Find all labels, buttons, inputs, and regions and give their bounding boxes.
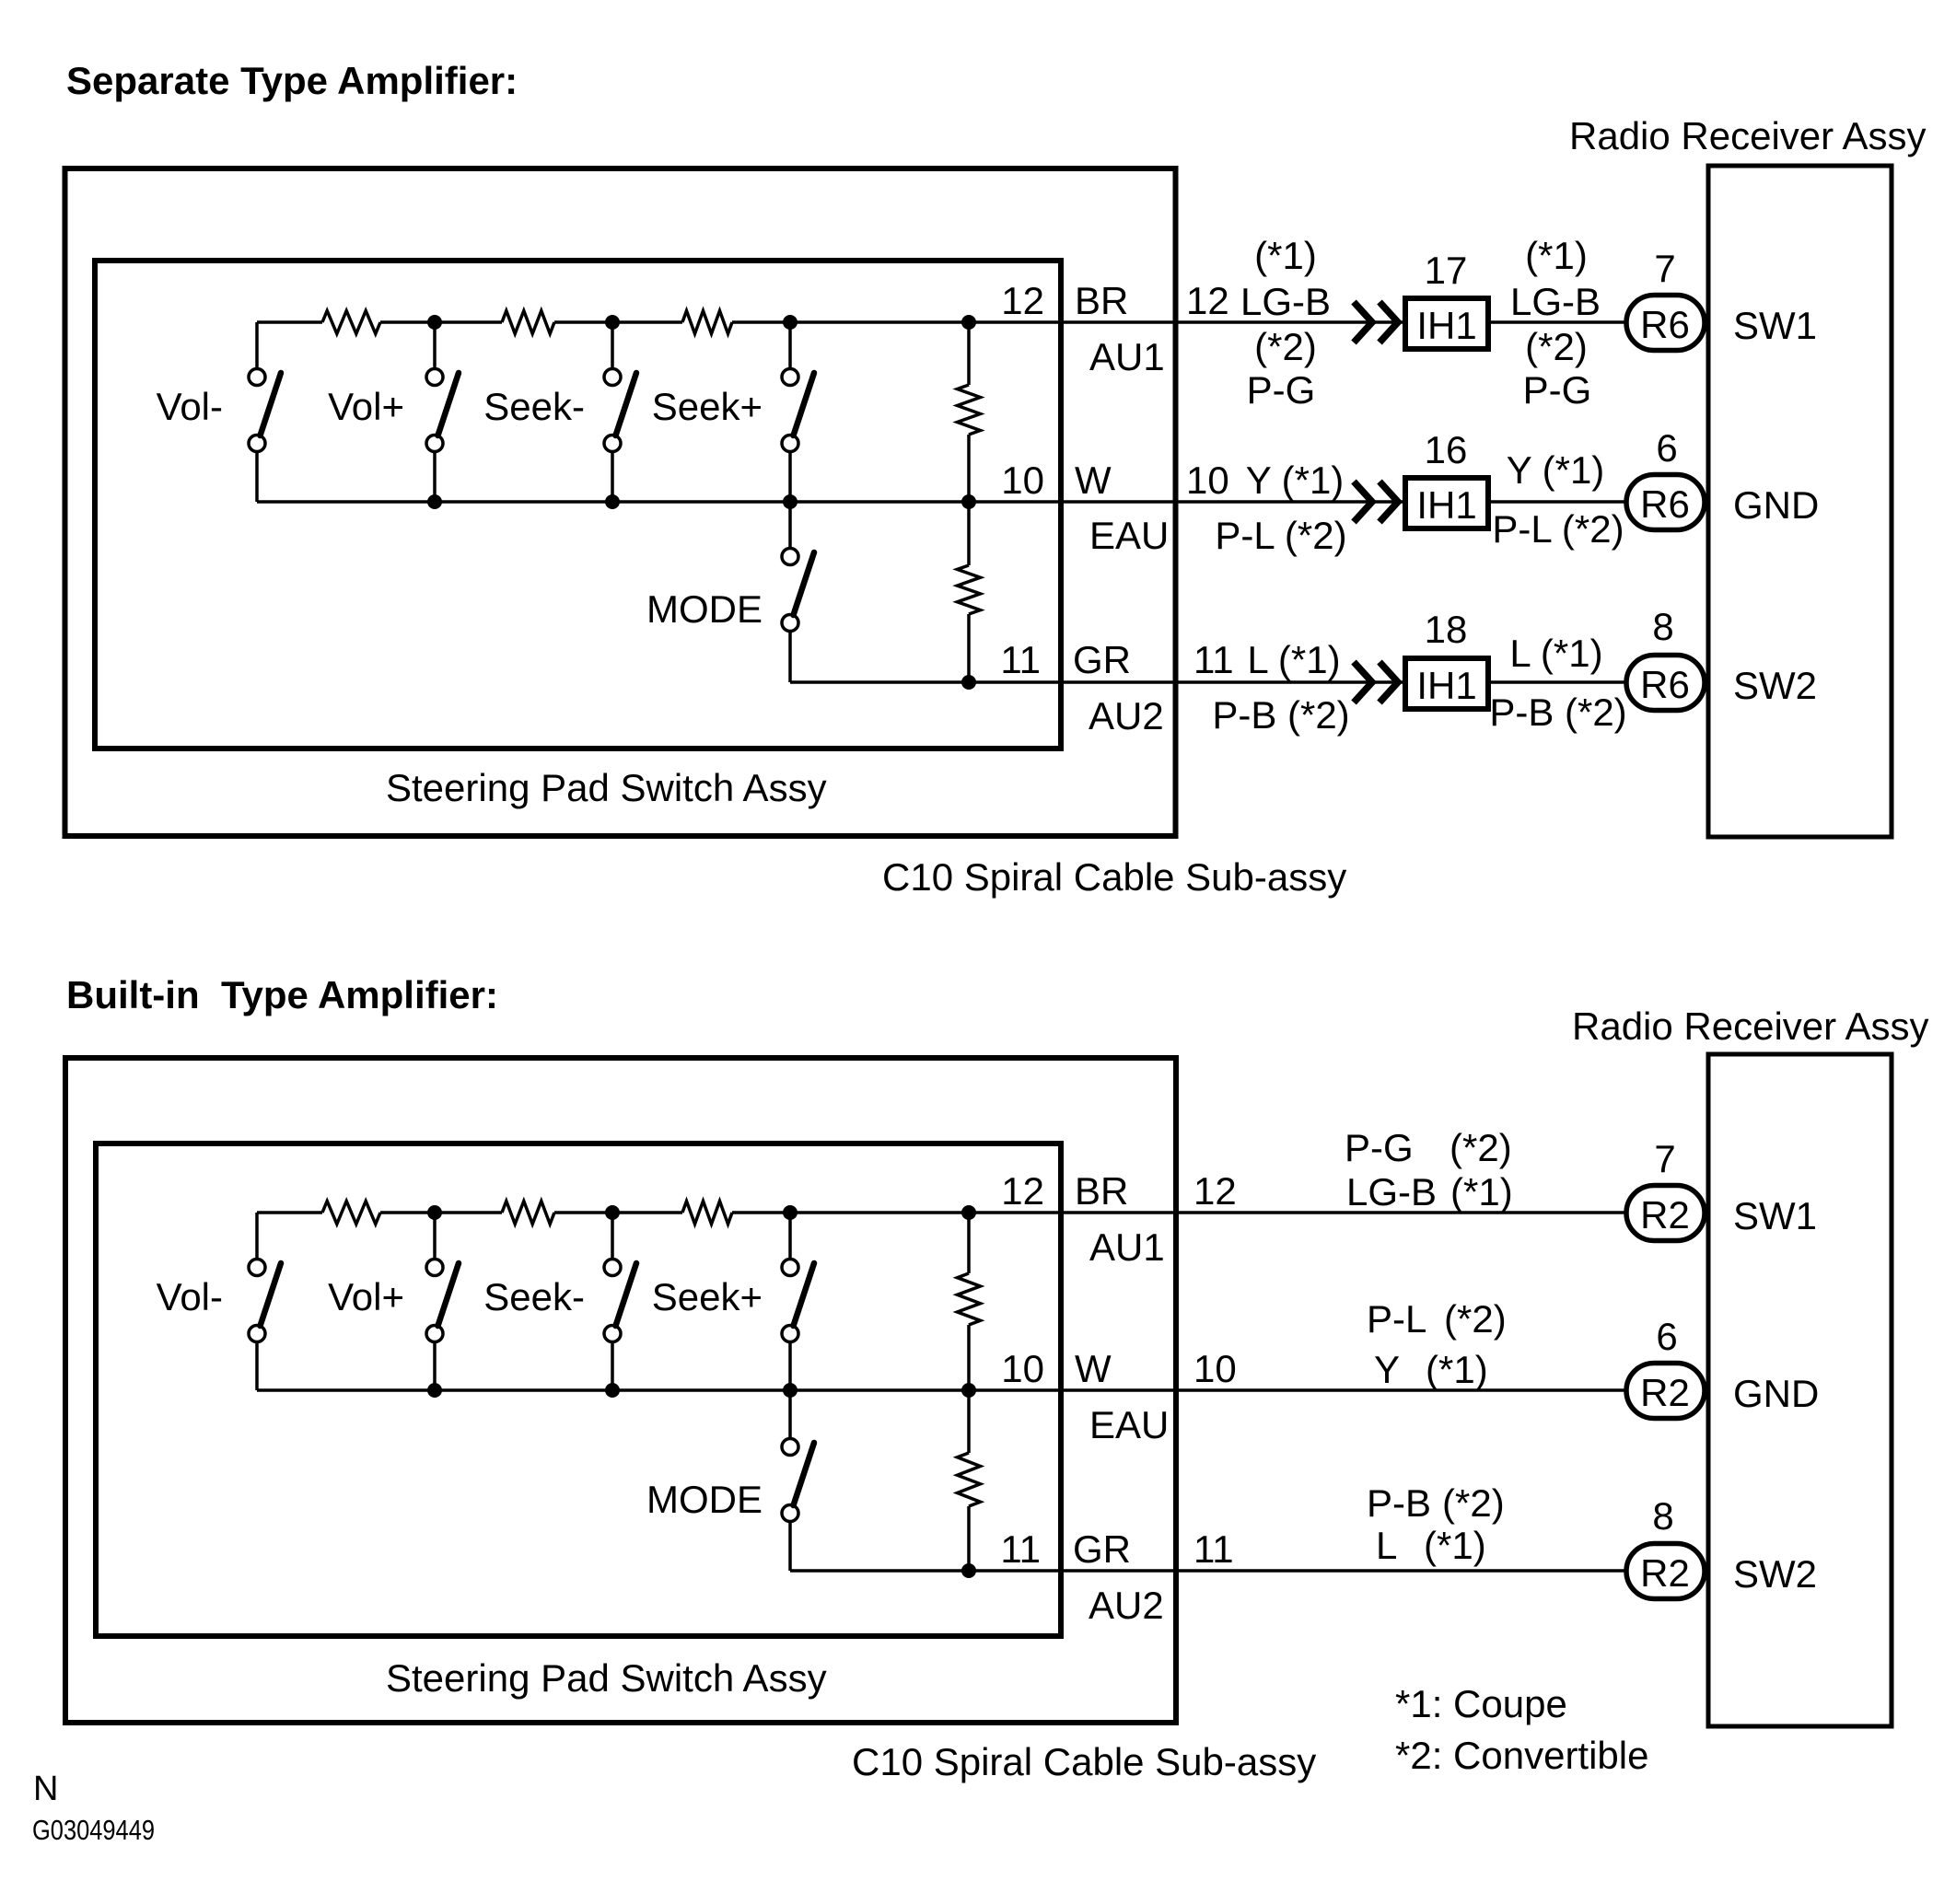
switch Seek+ (bottom) (782, 1213, 814, 1390)
junction dot MODE row (bottom) (961, 1563, 976, 1578)
svg-text:(*1): (*1) (1424, 1524, 1486, 1567)
connector R2 pin 8 (1626, 1494, 1705, 1599)
svg-text:N: N (33, 1770, 58, 1808)
resistor between AU1 and EAU rails (958, 385, 981, 435)
resistor between Vol+ and Seek- (bottom) (502, 1202, 554, 1225)
svg-text:Seek+: Seek+ (652, 385, 763, 428)
svg-text:Steering Pad Switch Assy: Steering Pad Switch Assy (386, 766, 827, 809)
switch MODE (782, 502, 814, 632)
svg-text:12: 12 (1001, 279, 1044, 322)
svg-text:(*1): (*1) (1254, 234, 1317, 277)
svg-text:16: 16 (1425, 428, 1468, 471)
svg-text:17: 17 (1425, 249, 1468, 292)
wire: top rail / SW1 row (net AU1) (257, 322, 1624, 369)
svg-text:SW1: SW1 (1733, 304, 1817, 347)
connector R2 pin 7 (1626, 1137, 1705, 1241)
resistor between Seek- and Seek+ (682, 311, 732, 334)
svg-text:AU2: AU2 (1089, 694, 1164, 737)
wire: top rail / SW1 row (bottom diagram) (257, 1213, 1624, 1260)
svg-text:C10 Spiral Cable Sub-assy: C10 Spiral Cable Sub-assy (852, 1740, 1316, 1783)
svg-text:(*1): (*1) (1426, 1348, 1488, 1391)
svg-text:P-L (*2): P-L (*2) (1492, 507, 1624, 551)
svg-text:12: 12 (1186, 279, 1229, 322)
svg-text:10: 10 (1193, 1347, 1237, 1390)
arrow row3 (1354, 662, 1398, 702)
svg-text:P-B: P-B (1367, 1481, 1431, 1525)
wire: MODE row (bottom diagram) (790, 1522, 1624, 1572)
svg-text:10: 10 (1001, 459, 1044, 502)
switch Vol- (bottom) (249, 1260, 281, 1342)
resistor between Vol+ and Seek- (502, 311, 554, 334)
svg-text:18: 18 (1425, 608, 1468, 651)
resistor between EAU and AU2 rails (958, 565, 981, 614)
switch Vol+ (bottom) (426, 1213, 459, 1390)
junction dots bottom rail (bottom) (427, 1383, 976, 1398)
connector R2 pin 6 (1626, 1315, 1705, 1419)
svg-text:P-G: P-G (1247, 368, 1316, 412)
svg-text:Seek+: Seek+ (652, 1275, 763, 1318)
svg-text:GND: GND (1733, 1372, 1819, 1415)
svg-text:R2: R2 (1640, 1371, 1690, 1414)
svg-text:7: 7 (1654, 1137, 1675, 1180)
svg-text:GR: GR (1073, 638, 1131, 681)
resistor between rails 2-3 (bottom) (958, 1453, 981, 1506)
connector R6 pin 6 (1626, 426, 1705, 530)
svg-text:Vol+: Vol+ (328, 385, 404, 428)
wire: bottom rail / GND row (bottom diagram) (257, 1342, 1624, 1391)
junction dots top rail (427, 315, 976, 330)
svg-text:L (*1): L (*1) (1509, 632, 1602, 675)
svg-text:(*2): (*2) (1254, 325, 1317, 368)
svg-text:SW1: SW1 (1733, 1194, 1817, 1237)
svg-text:P-B (*2): P-B (*2) (1489, 691, 1626, 734)
svg-text:11: 11 (1000, 638, 1041, 681)
switch Seek- (604, 322, 636, 502)
svg-text:(*1): (*1) (1525, 234, 1588, 277)
svg-text:12: 12 (1193, 1169, 1237, 1213)
svg-text:Vol+: Vol+ (328, 1275, 404, 1318)
svg-text:L: L (1376, 1524, 1397, 1567)
svg-text:MODE: MODE (646, 1478, 763, 1521)
switch Seek+ (782, 322, 814, 502)
svg-text:Radio Receiver Assy: Radio Receiver Assy (1569, 114, 1927, 157)
wire label P-G (*2) / LG-B (*1) (1345, 1126, 1513, 1213)
junction dot MODE row (961, 675, 976, 690)
connector R6 pin 7 (1626, 247, 1705, 351)
svg-text:SW2: SW2 (1733, 664, 1817, 707)
svg-text:(*2): (*2) (1444, 1297, 1507, 1341)
svg-text:EAU: EAU (1089, 514, 1169, 557)
svg-text:W: W (1075, 459, 1112, 502)
svg-text:8: 8 (1652, 1494, 1673, 1538)
wire label P-L (*2) / Y (*1) (1367, 1297, 1507, 1391)
svg-text:Y (*1): Y (*1) (1507, 448, 1605, 492)
wire label Y(*1) / P-L(*2) (right) (1492, 448, 1624, 551)
svg-text:L (*1): L (*1) (1247, 638, 1340, 681)
svg-text:Vol-: Vol- (157, 1275, 223, 1318)
svg-text:C10 Spiral Cable Sub-assy: C10 Spiral Cable Sub-assy (882, 855, 1346, 899)
svg-text:R2: R2 (1640, 1193, 1690, 1236)
svg-text:12: 12 (1001, 1169, 1044, 1213)
svg-text:MODE: MODE (646, 587, 763, 631)
svg-text:10: 10 (1001, 1347, 1044, 1390)
svg-text:11: 11 (1000, 1527, 1041, 1571)
connector IH1 pin 17 (1405, 249, 1488, 349)
arrow row2 (1354, 482, 1398, 522)
svg-text:BR: BR (1075, 1169, 1128, 1213)
svg-text:Seek-: Seek- (483, 385, 585, 428)
connector IH1 pin 18 (1405, 608, 1488, 709)
svg-text:6: 6 (1656, 1315, 1677, 1358)
svg-text:AU2: AU2 (1089, 1584, 1164, 1627)
svg-text:BR: BR (1075, 279, 1128, 322)
wire: bottom rail / GND row (net EAU) (257, 452, 1624, 503)
svg-text:LG-B: LG-B (1346, 1170, 1437, 1213)
wire label (*1) LG-B / (*2) P-G (1240, 234, 1331, 412)
junction dots top rail (bottom) (427, 1205, 976, 1220)
svg-text:SW2: SW2 (1733, 1552, 1817, 1596)
switch Seek- (bottom) (604, 1213, 636, 1390)
svg-text:W: W (1075, 1347, 1112, 1390)
resistor between rails 1-2 (bottom) (958, 1273, 981, 1325)
svg-text:Radio Receiver Assy: Radio Receiver Assy (1572, 1004, 1929, 1048)
svg-text:(*1): (*1) (1450, 1170, 1513, 1213)
svg-text:P-L: P-L (1367, 1297, 1426, 1341)
resistor between Seek- and Seek+ (bottom) (682, 1202, 732, 1225)
resistor ladder column wires (bottom) (967, 1213, 971, 1571)
svg-text:*1: Coupe: *1: Coupe (1395, 1682, 1567, 1725)
svg-text:11: 11 (1193, 638, 1234, 681)
arrow row1 (1354, 302, 1398, 342)
svg-text:EAU: EAU (1089, 1403, 1169, 1446)
wire label Y(*1) / P-L(*2) (1215, 459, 1346, 557)
svg-text:10: 10 (1186, 459, 1229, 502)
switch Vol+ (426, 322, 459, 502)
box: Radio Receiver Assy (bottom) (1708, 1054, 1892, 1726)
svg-text:IH1: IH1 (1416, 483, 1476, 527)
svg-text:Separate Type Amplifier:: Separate Type Amplifier: (66, 59, 518, 102)
svg-text:P-G: P-G (1345, 1126, 1414, 1169)
svg-text:LG-B: LG-B (1240, 280, 1331, 323)
svg-text:IH1: IH1 (1416, 304, 1476, 347)
svg-text:P-L (*2): P-L (*2) (1215, 514, 1346, 557)
svg-text:IH1: IH1 (1416, 664, 1476, 707)
svg-text:P-B (*2): P-B (*2) (1212, 693, 1349, 737)
svg-text:R6: R6 (1640, 482, 1690, 526)
connector IH1 pin 16 (1405, 428, 1488, 528)
svg-text:Vol-: Vol- (157, 385, 223, 428)
svg-text:G03049449: G03049449 (32, 1814, 155, 1846)
svg-text:6: 6 (1656, 426, 1677, 470)
svg-text:GND: GND (1733, 483, 1819, 527)
svg-text:8: 8 (1652, 605, 1673, 648)
svg-text:GR: GR (1073, 1527, 1131, 1571)
svg-text:(*2): (*2) (1525, 325, 1588, 368)
svg-text:R6: R6 (1640, 303, 1690, 346)
svg-text:Built-in Type Amplifier:: Built-in Type Amplifier: (66, 973, 498, 1016)
resistor between Vol- and Vol+ (bottom) (322, 1202, 380, 1225)
svg-text:Y: Y (1374, 1348, 1400, 1391)
svg-text:AU1: AU1 (1089, 1225, 1165, 1269)
svg-text:11: 11 (1193, 1527, 1234, 1571)
svg-text:LG-B: LG-B (1510, 280, 1601, 323)
wire: MODE row (net AU2) (790, 632, 1624, 683)
connector R6 pin 8 (1626, 605, 1705, 711)
wire label P-B (*2) / L (*1) (1367, 1481, 1505, 1567)
svg-text:AU1: AU1 (1089, 335, 1165, 378)
resistor ladder column wires (967, 322, 971, 682)
box: Steering Pad Switch Assy (inner, bottom) (96, 1144, 1061, 1636)
resistor between Vol- and Vol+ (322, 311, 380, 334)
svg-text:7: 7 (1654, 247, 1675, 290)
wire label L(*1) / P-B(*2) (right) (1489, 632, 1626, 734)
box: Steering Pad Switch Assy (inner) (95, 261, 1061, 749)
svg-text:Seek-: Seek- (483, 1275, 585, 1318)
switch Vol- (249, 369, 281, 452)
svg-text:*2: Convertible: *2: Convertible (1395, 1734, 1648, 1777)
switch MODE (bottom) (782, 1390, 814, 1522)
svg-text:P-G: P-G (1523, 368, 1592, 412)
wire label L(*1) / P-B(*2) (1212, 638, 1349, 737)
svg-text:R2: R2 (1640, 1551, 1690, 1595)
junction dots bottom rail (427, 494, 976, 509)
box: Radio Receiver Assy (1708, 166, 1892, 837)
svg-text:R6: R6 (1640, 663, 1690, 706)
wire label (*1) LG-B / (*2) P-G (right) (1510, 234, 1601, 412)
svg-text:(*2): (*2) (1442, 1481, 1505, 1525)
box: C10 Spiral Cable Sub-assy (outer, bottom) (65, 1058, 1176, 1723)
svg-text:Y (*1): Y (*1) (1246, 459, 1345, 502)
svg-text:Steering Pad Switch Assy: Steering Pad Switch Assy (386, 1656, 827, 1700)
svg-text:(*2): (*2) (1450, 1126, 1512, 1169)
box: C10 Spiral Cable Sub-assy (outer) (65, 168, 1176, 836)
